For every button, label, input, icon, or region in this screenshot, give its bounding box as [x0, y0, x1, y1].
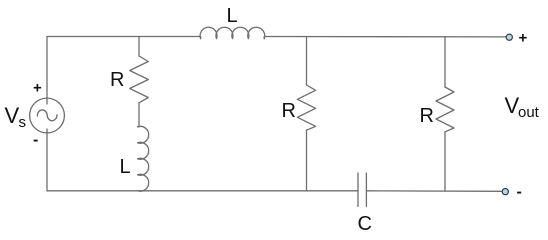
wire left branch upper (top rail into source) — [46, 37, 48, 105]
wire top rail left (source to inductor L2) — [47, 36, 201, 38]
output terminal - (node) — [502, 189, 508, 195]
wire branch2 bottom (R2 to bottom rail) — [306, 130, 308, 191]
svg-text:+: + — [33, 80, 42, 97]
svg-text:+: + — [519, 29, 528, 46]
capacitor C right plate — [365, 173, 367, 207]
svg-text:V: V — [5, 103, 20, 128]
wire branch1 middle (R1 to L1) — [138, 103, 140, 127]
svg-text:-: - — [517, 184, 522, 201]
svg-text:C: C — [358, 213, 372, 235]
resistor R3 (output shunt R) — [436, 87, 454, 132]
wire left branch lower (source to bottom rail) — [46, 129, 48, 191]
wire top inductor left tick — [200, 37, 202, 39]
voltage source Vs (circle) — [30, 98, 65, 133]
svg-text:R: R — [420, 105, 434, 127]
voltage source Vs sine symbol — [37, 110, 57, 121]
svg-text:R: R — [110, 69, 124, 91]
inductor L1 (shunt branch, vertical) — [138, 126, 149, 191]
wire top rail right (inductor to + terminal) — [264, 36, 506, 38]
resistor R1 (series with L1) — [130, 56, 149, 103]
output terminal + (node) — [506, 34, 512, 40]
wire bottom rail left (source to capacitor) — [47, 190, 358, 192]
svg-text:-: - — [33, 132, 38, 149]
wire branch2 top (rail to R2) — [306, 37, 308, 86]
wire top inductor right tick — [263, 37, 265, 39]
wire branch1 top (rail to R1) — [138, 37, 140, 57]
svg-text:s: s — [19, 114, 27, 131]
wire branch3 top (rail to R3) — [444, 37, 446, 87]
resistor R2 (first shunt R) — [297, 85, 315, 130]
inductor L2 (series, horizontal) — [200, 27, 265, 38]
wire branch3 bottom (R3 to bottom rail) — [444, 132, 446, 191]
svg-text:out: out — [518, 104, 540, 121]
wire bottom rail right (capacitor to - terminal) — [366, 190, 502, 193]
capacitor C left plate — [357, 173, 359, 207]
svg-text:L: L — [227, 5, 238, 27]
svg-text:L: L — [120, 156, 131, 178]
svg-text:R: R — [282, 100, 296, 122]
